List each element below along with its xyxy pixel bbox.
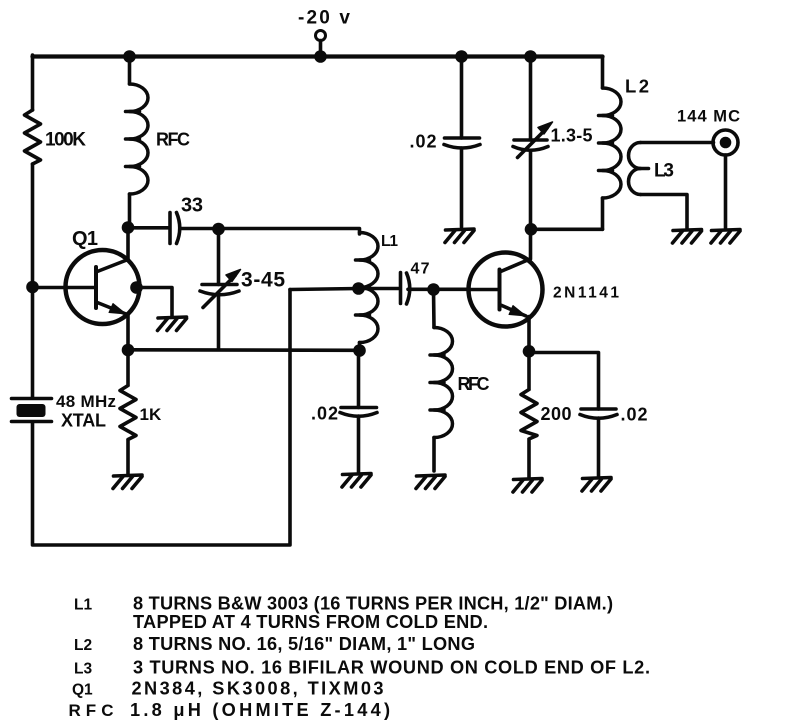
ground: 1K <box>113 475 142 489</box>
svg-text:3-45: 3-45 <box>241 269 285 292</box>
variable capacitor 1.3-5 <box>529 57 533 141</box>
svg-text:200: 200 <box>541 404 572 424</box>
ground: connector <box>711 230 740 244</box>
transistor Q2 2N1141 <box>469 253 543 327</box>
ground: .02 under L1 <box>342 474 371 488</box>
wire: stub to ground <box>137 288 173 317</box>
svg-text:RFC: RFC <box>458 374 490 394</box>
svg-text:144 MC: 144 MC <box>677 108 740 126</box>
svg-text:2N384, SK3008, TIXM03: 2N384, SK3008, TIXM03 <box>132 679 384 699</box>
capacitor .02 (under L1) <box>357 351 361 408</box>
node: L1 bottom <box>353 344 366 357</box>
ground: .02 emitter <box>582 478 611 492</box>
inductor L2 <box>601 57 605 89</box>
wire: tap to 47 cap <box>359 287 399 291</box>
wire: emitter row <box>128 348 360 352</box>
wire: tap line to L1 <box>290 289 359 290</box>
inductor RFC (right) <box>432 290 436 328</box>
wire: Q1 emitter down <box>126 314 130 350</box>
capacitor 33 <box>168 213 172 244</box>
svg-text:-20 v: -20 v <box>298 8 350 29</box>
power terminal -20 v <box>316 31 326 41</box>
wire: tank bottom row <box>531 228 603 232</box>
ground: 200 <box>513 479 542 493</box>
svg-text:RFC: RFC <box>156 130 190 150</box>
node: Q1 circle-edge junction <box>130 281 143 294</box>
svg-text:8 TURNS NO. 16, 5/16" DIAM,: 8 TURNS NO. 16, 5/16" DIAM, 1" LONG <box>133 634 475 654</box>
svg-text:L3: L3 <box>654 161 674 182</box>
wire: L3 bottom to ground <box>641 195 688 229</box>
wire: 47 to Q2 base <box>408 287 469 291</box>
svg-text:Q1: Q1 <box>72 682 93 699</box>
inductor L1 <box>356 233 379 343</box>
svg-text:8 TURNS B&W 3003 (16 TURNS PE: 8 TURNS B&W 3003 (16 TURNS PER INCH, 1/2… <box>133 594 613 614</box>
svg-text:L2: L2 <box>74 637 92 654</box>
svg-text:RFC: RFC <box>69 701 114 720</box>
wire: connector to ground <box>724 155 728 228</box>
svg-text:.02: .02 <box>621 405 648 425</box>
ground: L3 <box>673 230 702 244</box>
connector J1 144 MC <box>713 130 738 155</box>
resistor 100K <box>25 110 41 164</box>
wire: feedback loop bottom <box>33 290 291 546</box>
node: bus junction RFC <box>123 50 136 63</box>
svg-text:XTAL: XTAL <box>61 411 106 431</box>
svg-text:3 TURNS NO. 16 BIFILAR WOUND: 3 TURNS NO. 16 BIFILAR WOUND ON COLD END… <box>133 658 650 678</box>
ground: RFC right <box>416 475 445 489</box>
wire: left rail upper <box>31 55 35 110</box>
node: bus junction 1.3-5 <box>524 50 537 63</box>
svg-text:100K: 100K <box>45 130 86 151</box>
capacitor .02 (top, left of 1.3-5) <box>460 57 464 139</box>
node: Q1 base junction <box>26 281 39 294</box>
wire: Q1 collector up <box>126 228 130 260</box>
resistor 1K <box>120 350 136 474</box>
svg-text:1.3-5: 1.3-5 <box>551 126 593 146</box>
svg-text:33: 33 <box>181 195 203 217</box>
wire: left rail mid <box>31 164 35 397</box>
wire: terminal to bus <box>319 41 323 53</box>
node: Q1 collector junction <box>122 221 135 234</box>
capacitor 47 <box>399 273 403 304</box>
wire: L3 top to connector <box>641 141 714 145</box>
svg-text:47: 47 <box>411 261 430 278</box>
svg-text:1.8 μH (OHMITE Z-144): 1.8 μH (OHMITE Z-144) <box>130 700 390 720</box>
svg-text:.02: .02 <box>311 404 338 424</box>
resistor 200 <box>521 351 537 477</box>
node: Q2 base junction <box>427 283 440 296</box>
svg-text:TAPPED AT 4 TURNS FROM COLD E: TAPPED AT 4 TURNS FROM COLD END. <box>133 612 488 632</box>
wire: Q2 collector up <box>529 229 533 259</box>
wire: Q2 emitter down <box>527 317 531 352</box>
svg-text:L3: L3 <box>74 661 92 678</box>
transistor Q1 <box>66 250 140 324</box>
capacitor .02 (emitter bypass) <box>581 407 616 411</box>
wire: top supply bus <box>33 54 603 58</box>
crystal Y1 48 MHz XTAL <box>12 397 52 401</box>
svg-text:1K: 1K <box>140 405 162 424</box>
node: bus junction .02 <box>455 50 468 63</box>
notes list <box>69 594 651 721</box>
node: L1 tap <box>352 282 365 295</box>
wire: 33 cap to L1 top <box>182 229 360 235</box>
variable capacitor 3-45 <box>217 229 221 285</box>
inductor RFC (left) <box>128 55 132 84</box>
svg-text:Q1: Q1 <box>72 228 98 250</box>
node: emitter network junction <box>523 345 536 358</box>
wire: collector node to 33 cap <box>128 226 169 230</box>
ground: Q1 stub <box>158 317 187 331</box>
svg-text:L1: L1 <box>74 597 92 614</box>
node: emitter junction <box>122 344 135 357</box>
svg-text:.02: .02 <box>410 132 437 152</box>
wire: emitter to .02 <box>529 353 599 410</box>
node: collector tank junction <box>525 223 538 236</box>
inductor L3 <box>629 143 641 195</box>
node: bus junction at terminal <box>314 50 327 63</box>
node: 13-45 top junction <box>212 223 225 236</box>
svg-text:48 MHz: 48 MHz <box>56 392 116 411</box>
ground: .02 top <box>445 229 474 243</box>
svg-text:L1: L1 <box>381 233 398 250</box>
